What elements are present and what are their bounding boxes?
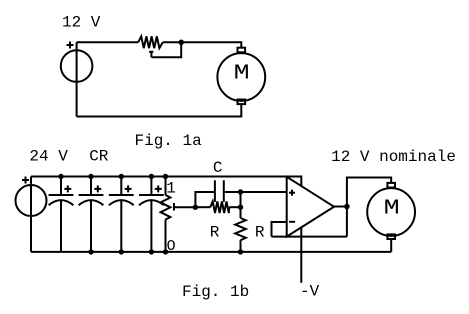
capacitor C2 of CR bank <box>79 177 104 252</box>
node dot C2 bottom <box>88 249 93 254</box>
op-amp U1 triangle <box>287 177 334 237</box>
capacitor C3 of CR bank <box>109 177 134 252</box>
wire bottom rail Fig 1b <box>31 251 391 253</box>
resistor R1a zigzag <box>138 36 163 48</box>
resistor R vertical <box>235 218 246 252</box>
node dot RC top <box>238 189 243 194</box>
svg-text:-V: -V <box>300 282 320 300</box>
wire wiper jog up <box>195 192 215 207</box>
svg-text:24 V: 24 V <box>29 148 68 166</box>
potentiometer P1 body <box>161 177 171 252</box>
wire feedback bottom <box>272 236 347 238</box>
svg-text:M: M <box>384 197 400 220</box>
wire noninverting input <box>241 191 287 193</box>
wire source V2 vertical <box>30 177 32 252</box>
resistor R horizontal <box>195 201 240 213</box>
capacitor C4 of CR bank <box>139 177 164 252</box>
motor M2 terminal top <box>387 183 395 188</box>
motor M1 terminal bottom <box>238 100 246 105</box>
node dot C1 top <box>58 174 63 179</box>
svg-text:R: R <box>255 224 265 242</box>
node dot C3 bottom <box>119 249 124 254</box>
op-amp plus input mark <box>289 190 295 196</box>
node dot C4 bottom <box>149 249 154 254</box>
wire tap bypass <box>151 42 181 57</box>
capacitor C1 of CR bank <box>49 177 74 252</box>
wire output up to motor <box>347 178 391 237</box>
motor M1 terminal top <box>238 48 246 53</box>
node dot wiper <box>193 205 198 210</box>
motor M2 circle <box>367 188 415 236</box>
node dot P1 bottom <box>163 249 168 254</box>
op-amp top corner stub <box>287 177 302 187</box>
node dot C2 top <box>88 174 93 179</box>
source V2 plus sign <box>22 177 29 184</box>
svg-text:M: M <box>234 62 250 85</box>
motor M2 terminal bottom <box>387 234 395 239</box>
svg-text:Fig. 1b: Fig. 1b <box>182 283 249 301</box>
wire inverting input stub <box>272 222 287 237</box>
node dot C4 top <box>149 174 154 179</box>
op-amp minus input mark <box>289 221 295 223</box>
svg-text:12 V nominale: 12 V nominale <box>331 148 456 166</box>
wire source V1 vertical <box>76 42 78 116</box>
rheostat tap T-bar <box>149 52 153 57</box>
wire C right <box>224 191 241 193</box>
svg-text:CR: CR <box>89 148 109 166</box>
wire op-amp output <box>334 206 347 208</box>
wire top rail Fig 1b <box>31 176 287 178</box>
svg-text:C: C <box>213 159 223 177</box>
wire RC link vertical <box>240 192 242 218</box>
node dot P1 top <box>163 174 168 179</box>
node dot R bottom rail <box>238 249 243 254</box>
node dot C3 top <box>119 174 124 179</box>
wire top left Fig 1a <box>77 41 139 43</box>
svg-text:Fig. 1a: Fig. 1a <box>135 132 203 150</box>
source V2 (24 V) circle <box>16 185 47 216</box>
svg-text:O: O <box>167 238 176 255</box>
node junction dot Fig 1a <box>178 40 184 46</box>
wire top right Fig 1a <box>163 42 242 47</box>
svg-text:1: 1 <box>166 179 176 197</box>
source V1 plus sign <box>67 42 74 49</box>
svg-text:R: R <box>210 224 220 242</box>
potentiometer wiper bar <box>174 203 195 211</box>
wire negative supply -V <box>300 228 302 283</box>
wire motor M2 bottom <box>390 239 392 252</box>
source V1 (12 V) circle <box>61 50 93 82</box>
svg-text:12 V: 12 V <box>62 14 101 32</box>
node dot RC bottom <box>238 205 243 210</box>
node dot output <box>344 204 350 210</box>
wire bottom Fig 1a <box>77 104 242 116</box>
capacitor C plates <box>215 180 224 202</box>
motor M1 circle <box>217 53 265 101</box>
